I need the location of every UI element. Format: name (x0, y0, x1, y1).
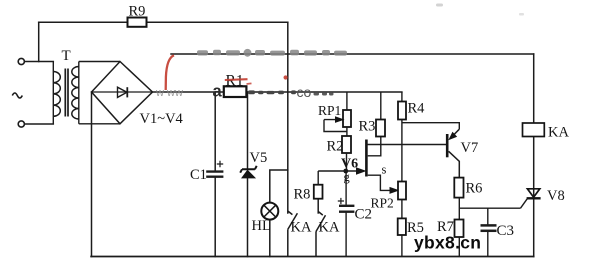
svg-text:a: a (213, 83, 223, 101)
svg-text:V1~V4: V1~V4 (140, 111, 184, 127)
wire vertical feedback x=287.8 (287, 22, 289, 213)
svg-text:KA: KA (319, 220, 340, 236)
svg-text:R8: R8 (294, 187, 311, 203)
wire left input drop (38, 22, 40, 61)
potentiometer RP1 (346, 92, 348, 110)
red strike over R1 (225, 78, 248, 81)
svg-text:s: s (382, 163, 387, 177)
primary rail (52, 62, 54, 125)
thyristor V8 (527, 189, 539, 197)
resistor R4 (401, 92, 403, 102)
red annotation curve bridge+ to upper rail (166, 55, 174, 90)
svg-text:V6: V6 (341, 157, 358, 172)
bridge diode bar (126, 87, 128, 97)
svg-text:HL: HL (252, 218, 271, 234)
wire KA coil through V8 to bottom right corner (533, 137, 535, 257)
svg-text:g: g (344, 170, 351, 184)
resistor R8 (314, 185, 323, 199)
watermark dark dashes right of R1 (248, 90, 296, 94)
terminal input bottom (18, 121, 24, 127)
plus sign C1 (217, 161, 223, 167)
resistor R9 (128, 18, 147, 27)
svg-text:R2: R2 (327, 139, 344, 155)
svg-text:KA: KA (548, 125, 569, 141)
plus sign C2 (338, 198, 344, 204)
resistor R1 (224, 86, 247, 97)
resistor R7 (455, 220, 464, 238)
svg-text:co: co (297, 84, 312, 100)
wire left rail from bridge minus (91, 92, 93, 257)
wire V6 s lead to RP2 wiper (368, 175, 391, 190)
svg-text:w ww: w ww (155, 87, 183, 99)
relay contact KA 2 (316, 199, 326, 257)
secondary winding bumps (72, 67, 79, 120)
transistor V6 gate arrow (318, 170, 357, 172)
capacitor C2 (345, 171, 347, 257)
wire R6 node to V8 gate (459, 207, 520, 209)
wire R3 bottom to V6 bar (368, 137, 381, 156)
svg-text:C3: C3 (497, 223, 515, 239)
wire terminal bottom to transformer (25, 123, 54, 125)
svg-text:R6: R6 (466, 181, 483, 197)
wire DC+ y=92 left of R1 (153, 91, 224, 93)
capacitor C3 (487, 208, 489, 256)
wire +V upper rail y=54 (171, 53, 534, 55)
RP1 wiper loop (324, 120, 347, 132)
wire V6 drain to V7 base (366, 144, 446, 146)
relay contact KA 1 (288, 211, 298, 257)
svg-text:R4: R4 (408, 101, 426, 117)
svg-text:T: T (62, 48, 71, 64)
faint specks (436, 4, 443, 7)
relay coil KA (523, 123, 545, 137)
wire DC+ y=92 right of R1 (247, 91, 402, 93)
V7 emitter diagonal with arrow (450, 129, 459, 138)
V7 collector diagonal (449, 151, 460, 177)
svg-text:ybx8.cn: ybx8.cn (414, 233, 481, 253)
svg-text:R3: R3 (359, 119, 376, 135)
transistor V7 bar (446, 134, 449, 157)
terminal input top (18, 58, 24, 64)
svg-text:KA: KA (291, 220, 312, 236)
resistor R5 (398, 218, 406, 235)
wire top R9 rail (39, 21, 288, 23)
wire HL branch and jog (270, 170, 288, 257)
secondary rail (78, 62, 80, 124)
bridge inner diode line (92, 91, 153, 93)
primary winding bumps (53, 72, 60, 117)
potentiometer RP2 (398, 182, 406, 200)
core lines (65, 69, 68, 117)
wire V5 branch (247, 92, 249, 257)
secondary top wire to bridge (79, 61, 120, 63)
svg-text:RP1: RP1 (318, 103, 341, 118)
bridge rectifier V1~V4 diamond (92, 62, 153, 124)
wire terminal top to transformer (25, 61, 54, 63)
resistor R6 (454, 178, 463, 198)
svg-text:R1: R1 (226, 73, 244, 90)
wire bottom rail (91, 256, 534, 258)
svg-text:V5: V5 (250, 150, 268, 166)
zener diode V5 (242, 170, 255, 178)
red tick right of R1 (247, 82, 252, 85)
transistor V7 emitter wire (402, 123, 459, 130)
transistor V6 bar (365, 140, 368, 177)
red dot on feedback wire (284, 75, 288, 79)
svg-text:V7: V7 (461, 140, 479, 156)
node g junction dot (343, 169, 348, 174)
capacitor C1 (206, 172, 223, 177)
wire right rail to KA coil (533, 54, 535, 123)
transformer T (53, 62, 120, 125)
svg-text:RP2: RP2 (371, 196, 394, 211)
svg-text:C1: C1 (190, 167, 207, 183)
resistor R2 (342, 136, 351, 153)
watermark gray row top (197, 49, 347, 57)
svg-text:V8: V8 (547, 188, 565, 204)
svg-text:R9: R9 (129, 4, 146, 20)
bridge diode triangle (118, 87, 128, 97)
secondary bottom wire to bridge (79, 123, 120, 125)
wire C1 branch (214, 92, 216, 257)
lamp HL (261, 203, 278, 220)
svg-text:C2: C2 (355, 207, 373, 223)
resistor R3 (380, 92, 382, 120)
AC tilde symbol (12, 93, 22, 98)
